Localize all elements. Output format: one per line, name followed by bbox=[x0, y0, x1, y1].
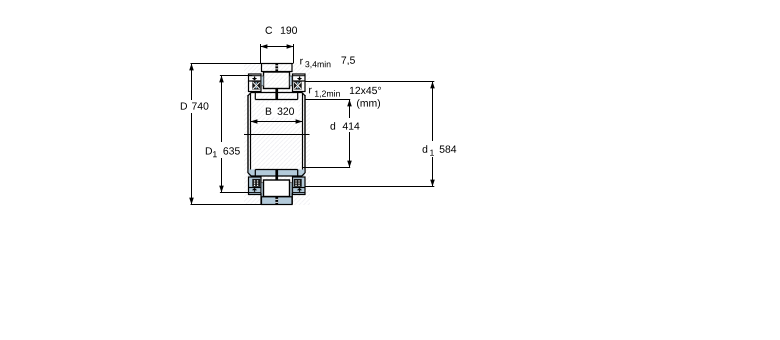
text B bbox=[266, 108, 272, 115]
text 320 bbox=[277, 108, 294, 115]
text 584 bbox=[440, 145, 457, 152]
seal left bottom bbox=[252, 179, 260, 187]
inner ring gap bar top bbox=[275, 89, 278, 100]
lubrication hole top bbox=[275, 64, 278, 72]
text D bbox=[181, 102, 187, 109]
roller top bbox=[264, 72, 290, 89]
bottom band side verticals bbox=[260, 193, 262, 205]
text sub 1 (D1) bbox=[213, 151, 217, 157]
right relube block top bbox=[293, 74, 306, 92]
cage strip left top bbox=[261, 76, 263, 86]
dimension d 414 bbox=[305, 99, 350, 101]
dimension D 740 bbox=[191, 63, 294, 65]
dimension C 190 bbox=[261, 44, 294, 63]
outer ring top band bbox=[262, 64, 293, 72]
cage strip right bottom bbox=[290, 183, 292, 197]
text (mm) bbox=[357, 99, 380, 109]
text d (d1) bbox=[423, 145, 428, 153]
left relube block bottom bbox=[249, 177, 262, 195]
text D (D1) bbox=[206, 147, 212, 154]
dimension B 320 bbox=[264, 103, 298, 117]
left relube block top bbox=[249, 74, 262, 92]
text 12x45deg bbox=[350, 87, 381, 94]
cage strip right top bbox=[290, 76, 292, 86]
arrow icon right top bbox=[297, 77, 302, 81]
seal left top bbox=[252, 82, 260, 90]
side face verticals bbox=[248, 93, 305, 177]
text C bbox=[266, 27, 273, 34]
text d bbox=[330, 122, 335, 130]
dimension d1 584 bbox=[305, 81, 434, 83]
centerline (bearing axis) bbox=[244, 134, 310, 136]
text 190 bbox=[281, 27, 297, 34]
inner ring top band lines bbox=[248, 92, 305, 99]
relube duct line right top bbox=[293, 75, 306, 77]
text 3,4min bbox=[305, 61, 330, 68]
relube duct line left top bbox=[249, 75, 262, 77]
arrow icon left top bbox=[252, 77, 257, 81]
faint hatch backdrop over bearing area bbox=[244, 63, 310, 205]
right relube block bottom bbox=[293, 177, 306, 195]
lubrication hole bottom bbox=[275, 197, 278, 205]
cage strip left bottom bbox=[261, 183, 263, 197]
text sub 1 (d1) bbox=[430, 150, 434, 156]
outer ring bottom band bbox=[262, 197, 293, 205]
dimension D1 635 bbox=[220, 75, 252, 77]
seal right top bbox=[294, 82, 302, 90]
text r (1,2) bbox=[309, 88, 312, 94]
seal right bottom bbox=[294, 179, 302, 187]
bottom inner ring band (blue) bbox=[248, 170, 305, 177]
text r (3,4) bbox=[300, 59, 303, 65]
text 7,5 bbox=[341, 57, 354, 65]
text 635 bbox=[223, 147, 239, 154]
inner ring gap bar bottom bbox=[275, 170, 278, 181]
text 1,2min bbox=[315, 90, 340, 97]
roller bottom bbox=[264, 180, 290, 197]
text 414 bbox=[343, 122, 360, 129]
text 740 bbox=[192, 102, 208, 109]
